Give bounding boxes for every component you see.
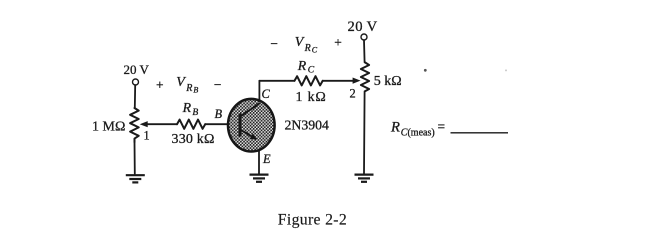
svg-text:2: 2	[350, 87, 356, 101]
svg-text:20 V: 20 V	[348, 19, 378, 35]
svg-text:330 kΩ: 330 kΩ	[172, 132, 215, 147]
svg-text:+: +	[156, 77, 164, 92]
svg-text:−: −	[214, 77, 222, 92]
svg-text:C: C	[262, 87, 271, 101]
svg-text:R: R	[390, 120, 400, 136]
svg-text:R: R	[297, 58, 307, 73]
svg-text:1 kΩ: 1 kΩ	[296, 90, 327, 105]
svg-text:+: +	[334, 35, 342, 50]
svg-text:R: R	[182, 100, 192, 115]
svg-text:E: E	[262, 152, 271, 166]
svg-text:B: B	[192, 107, 198, 118]
svg-text:−: −	[270, 36, 278, 51]
svg-text:2N3904: 2N3904	[285, 117, 330, 132]
svg-text:1: 1	[144, 129, 150, 143]
svg-text:C(meas): C(meas)	[401, 127, 435, 138]
svg-text:20 V: 20 V	[124, 62, 150, 77]
svg-text:1 MΩ: 1 MΩ	[92, 120, 125, 135]
svg-text:B: B	[215, 107, 223, 121]
svg-text:V: V	[176, 75, 186, 90]
svg-text:C: C	[308, 65, 315, 76]
svg-text:V: V	[295, 35, 305, 50]
svg-text:R: R	[185, 83, 192, 94]
svg-text:Figure 2-2: Figure 2-2	[278, 211, 347, 228]
svg-text:=: =	[438, 119, 446, 134]
svg-text:5 kΩ: 5 kΩ	[374, 74, 402, 89]
svg-text:R: R	[304, 43, 311, 54]
svg-text:C: C	[312, 45, 318, 54]
svg-text:B: B	[193, 86, 198, 95]
